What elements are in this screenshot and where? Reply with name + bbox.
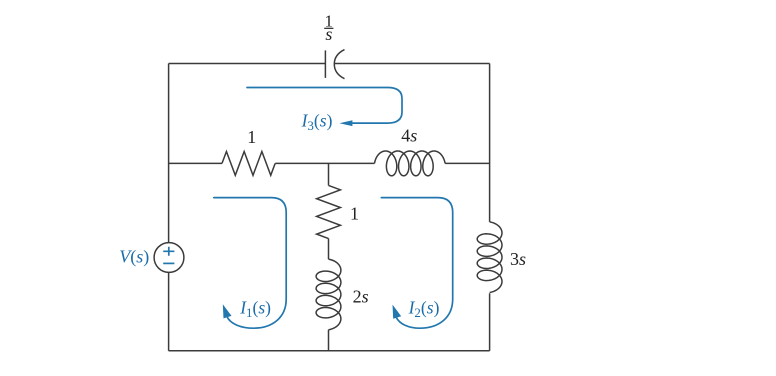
svg-text:I1(s): I1(s) [239,298,271,321]
wire top-left to capacitor [169,63,326,65]
wire middle row: R1 to L(4s), node at x=328.5 [275,162,374,164]
resistor R2 value 1 (vertical, middle branch) [317,185,341,238]
mesh current I3 loop arrow [247,88,402,124]
voltage source V(s): circle [154,243,184,273]
mesh current I3 arrowhead [339,120,352,126]
resistor R1 value 1 (horizontal, middle row) [222,152,275,176]
capacitor C (1/s): curved right plate [334,50,344,79]
wire middle row: L(4s) to right node [445,162,490,164]
svg-text:V(s): V(s) [119,246,149,267]
mesh current I1 loop arrow [214,198,286,329]
capacitor C (1/s): left plate [324,50,326,78]
capacitor value label 1/s (fraction) [324,11,333,44]
svg-text:I2(s): I2(s) [408,298,440,321]
mesh current I2 loop arrow [381,198,452,329]
wire bottom [169,350,490,352]
wire middle branch: node to resistor R2 [328,163,330,185]
mesh current I1 arrowhead [223,304,232,318]
wire middle branch: L(2s) to bottom node [328,330,330,351]
mesh current I2 arrowhead [393,305,402,319]
voltage source minus sign [163,262,174,264]
wire left side upper (corner to source) [168,64,170,243]
wire right side upper [489,64,491,222]
svg-text:1: 1 [350,204,359,224]
inductor L3 value 3s (vertical, right branch) [477,222,502,293]
inductor L1 value 4s (horizontal, middle row) [375,151,446,176]
voltage source plus sign [163,247,174,256]
wire left side lower (source to bottom corner) [168,273,170,351]
svg-text:I3(s): I3(s) [301,111,333,134]
svg-text:1: 1 [247,127,256,147]
wire right side lower [489,293,491,351]
inductor L2 value 2s (vertical, middle branch) [316,259,341,330]
svg-text:4s: 4s [401,126,417,146]
wire middle row: left node to resistor R1 [169,162,222,164]
wire capacitor to top-right corner [334,63,489,65]
svg-text:3s: 3s [510,249,526,269]
svg-text:s: s [325,24,332,44]
svg-text:2s: 2s [353,286,369,306]
wire middle branch: R2 to L(2s) [328,239,330,260]
